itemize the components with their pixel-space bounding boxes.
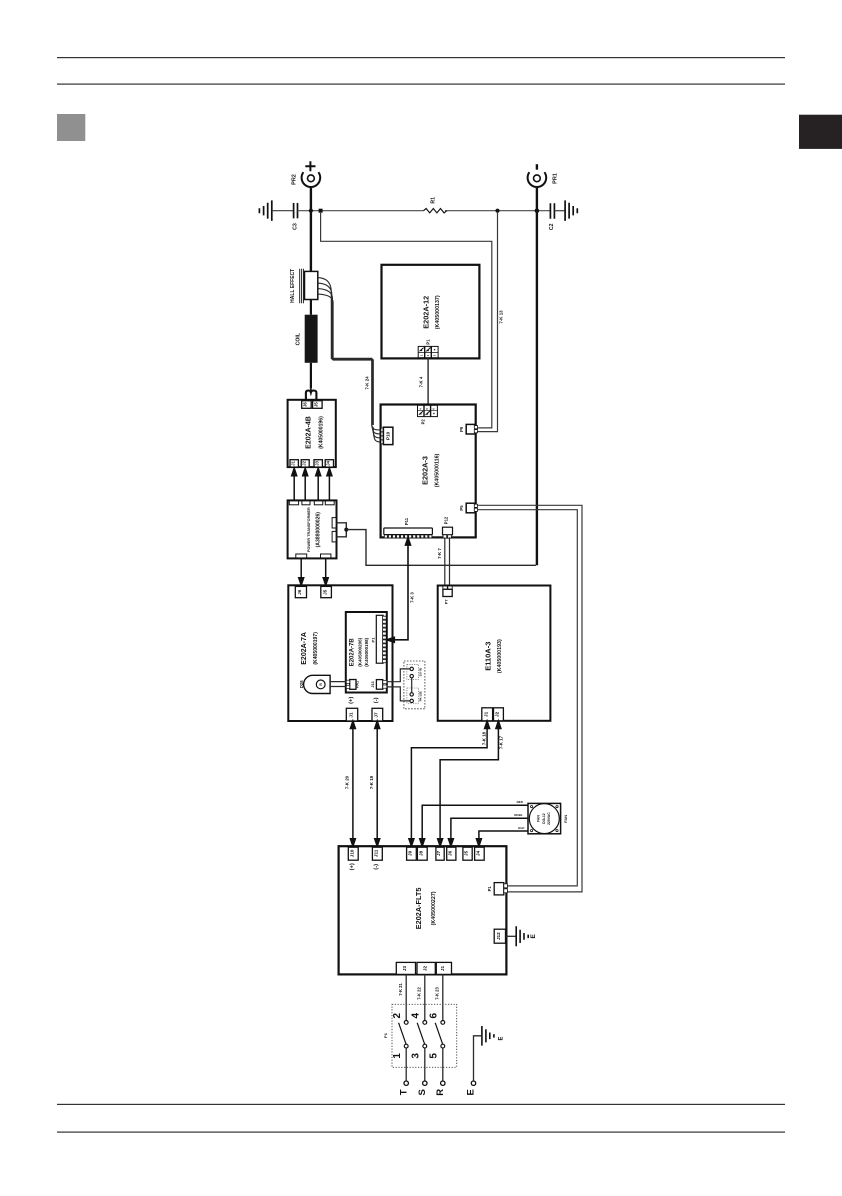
svg-text:P1: P1 [487, 886, 492, 892]
wire node to P9 upper [321, 213, 492, 428]
svg-text:(K405000196): (K405000196) [318, 416, 324, 449]
svg-text:7-K 17: 7-K 17 [498, 735, 503, 749]
svg-text:J1: J1 [440, 966, 445, 972]
junction coil split diamond [309, 388, 313, 394]
wire hall bundle (4 leads to P10) [318, 278, 374, 425]
wire J13 upper to switch [387, 669, 410, 682]
connector P5 pins [474, 504, 477, 511]
wire switch 1 to T [405, 1048, 407, 1081]
svg-text:7-K 19: 7-K 19 [369, 775, 374, 789]
connector P7 body [443, 589, 452, 596]
svg-text:J1: J1 [483, 711, 488, 717]
connector P5 body [466, 503, 475, 513]
svg-text:6: 6 [428, 1012, 439, 1018]
wire transformer to PR1 line [346, 530, 536, 566]
svg-text:7-K 3: 7-K 3 [409, 592, 414, 603]
svg-text:(-): (-) [374, 864, 380, 870]
svg-text:FAN: FAN [537, 815, 541, 822]
wire E terminal to earth [474, 1036, 482, 1081]
wire J13 lower to switch [387, 687, 410, 701]
connector J2 (E110A-3) [494, 708, 504, 721]
wire C2 to ground [554, 210, 565, 212]
connector P9 pins [474, 426, 477, 433]
connector J1 (E202A-4B) [290, 460, 298, 467]
transformer POWER TRANSFORMER body [288, 500, 337, 558]
svg-text:D28: D28 [299, 680, 304, 688]
svg-text:P1: P1 [426, 339, 431, 345]
connector J12 (FLT5) [494, 929, 505, 943]
wire switch 3 to S [424, 1048, 426, 1081]
connector J9 (FLT5) [407, 847, 417, 860]
arrow transformer to 7A J6 [299, 558, 329, 585]
svg-text:BLK: BLK [518, 826, 525, 830]
svg-text:DIA.12: DIA.12 [542, 813, 546, 824]
svg-text:J6: J6 [448, 850, 453, 856]
wire ground to C3 [272, 210, 293, 212]
svg-text:E: E [466, 1089, 477, 1095]
wire 7-K 19 (7A J7 to FLT5 J11) double arrow [375, 721, 380, 846]
transformer right pin notches [332, 518, 336, 542]
svg-text:P1: P1 [370, 637, 375, 643]
svg-text:J13: J13 [371, 681, 375, 687]
wire P5 to FLT5 P1 outer [478, 505, 583, 892]
svg-text:PR1: PR1 [552, 173, 558, 184]
junction mid bus [495, 209, 499, 213]
svg-text:PA1: PA1 [355, 681, 359, 688]
inner dashed box DS-7B [407, 664, 419, 679]
svg-text:(-): (-) [374, 697, 380, 703]
wire 7-K 4 (P1 to P2) [427, 358, 429, 406]
inner dashed box PK-12B [407, 688, 419, 703]
switch blade 1-2 [399, 1023, 407, 1045]
chassis ground left [259, 200, 271, 221]
connector J7 (-) of 7A [372, 708, 383, 721]
svg-text:C2: C2 [549, 223, 555, 230]
svg-text:RED: RED [517, 800, 524, 804]
minus sign above PR1 [536, 164, 538, 170]
connector J7 (FLT5) [436, 847, 444, 860]
svg-text:P1: P1 [383, 1032, 388, 1038]
wire fan BLK to FLT5 J4 [476, 831, 528, 846]
svg-text:J8: J8 [419, 850, 424, 856]
svg-text:7-K 20: 7-K 20 [345, 775, 350, 789]
wire 7-K 17 (FLT5 J7 to E110A-3 J2) [438, 721, 501, 846]
connector P9 body [466, 424, 475, 434]
plus sign above PR2 [305, 161, 315, 171]
connector J4 (E202A-4B) [325, 460, 333, 467]
terminal E [471, 1081, 475, 1085]
footer rule top [57, 1104, 785, 1105]
switch blade 5-6 [435, 1023, 443, 1045]
wire 7-K 3 from P11 to P1 with arrows [387, 538, 411, 643]
svg-text:PK-12B: PK-12B [418, 691, 422, 701]
svg-text:E110A-3: E110A-3 [483, 642, 492, 671]
svg-text:E202A-7A: E202A-7A [301, 632, 308, 665]
svg-text:J7: J7 [374, 712, 379, 718]
svg-text:E: E [499, 1036, 505, 1040]
board E202A-3 [381, 405, 476, 538]
connector P1 (FLT5) [494, 883, 504, 895]
resistor R1 [424, 209, 447, 213]
switch block P1 dashed box [392, 1004, 457, 1067]
connector HALL EFFECT body [305, 271, 318, 299]
connector P7 pin row [443, 586, 452, 589]
connector J6 (E202A-7A) [295, 586, 306, 597]
svg-text:COIL: COIL [296, 332, 302, 345]
svg-text:E202A-7B: E202A-7B [350, 638, 356, 667]
svg-text:7-K 24: 7-K 24 [364, 376, 369, 390]
svg-text:FAN: FAN [563, 815, 568, 823]
transformer bottom pin notches [296, 554, 331, 558]
svg-text:(K405000227): (K405000227) [431, 891, 437, 925]
wire 7-K 20 (7A J1 to FLT5 J10) double arrow [350, 721, 355, 846]
svg-text:(K405000137): (K405000137) [435, 295, 441, 329]
svg-text:J2: J2 [422, 966, 427, 972]
svg-text:S: S [417, 1089, 428, 1095]
svg-text:(K405000197): (K405000197) [313, 632, 319, 665]
svg-text:HALL EFFECT: HALL EFFECT [290, 269, 296, 303]
svg-text:7-K 23: 7-K 23 [435, 987, 440, 1000]
wire split wishbone into J6 J5 [306, 391, 317, 401]
svg-text:R1: R1 [431, 197, 437, 204]
wire between switch contacts [411, 678, 413, 693]
switch blade 3-4 [417, 1023, 425, 1045]
terminal S [423, 1081, 427, 1085]
junction at PR1 [535, 208, 540, 213]
connector J8 (FLT5) [417, 847, 427, 860]
connector P10 pins [381, 428, 384, 444]
svg-text:E202A-12: E202A-12 [421, 296, 430, 329]
svg-text:J5: J5 [322, 589, 327, 595]
svg-text:J6: J6 [303, 402, 308, 407]
wire switch 5 to R [442, 1048, 444, 1081]
switch contact 2 [404, 1021, 408, 1025]
svg-text:J2: J2 [495, 711, 500, 717]
wire fan RED to FLT5 J8 [420, 805, 528, 846]
svg-text:J3: J3 [314, 460, 319, 465]
svg-text:(K405000198): (K405000198) [364, 637, 369, 666]
svg-text:J3: J3 [402, 966, 407, 972]
junction transformer output [344, 528, 348, 532]
svg-text:J10: J10 [350, 849, 355, 857]
wire 7-K 23 (J1 to switch 6) [442, 974, 444, 1020]
board E110A-3 [438, 586, 551, 721]
connector P11 strip [384, 528, 433, 535]
transformer top pin notches [289, 501, 334, 505]
svg-text:5: 5 [428, 1053, 439, 1059]
svg-text:E202A-FLT5: E202A-FLT5 [414, 888, 423, 930]
terminal PR1 [528, 172, 547, 187]
svg-text:J11: J11 [374, 849, 379, 857]
svg-text:J6: J6 [297, 589, 302, 595]
wire 7-K 21 (J3 to switch 2) [405, 974, 407, 1020]
page tab black block [799, 115, 842, 149]
svg-text:J12: J12 [496, 932, 501, 940]
svg-text:7-K 13: 7-K 13 [499, 310, 504, 324]
svg-text:P10: P10 [385, 431, 390, 440]
svg-text:7-K 4: 7-K 4 [419, 376, 424, 387]
switch contact 1 [404, 1044, 408, 1048]
arrow transformer pin1 to J1 [292, 468, 332, 500]
connector P12 body [443, 527, 453, 535]
connector J3 (E202A-4B) [314, 460, 322, 467]
connector P1 (E202A-7B) pin column [383, 616, 387, 663]
wire PR1 down long left side [536, 188, 538, 565]
chassis ground right [565, 200, 577, 221]
board E202A-4B [288, 400, 336, 467]
connector J1 (E110A-3) [482, 708, 493, 721]
capacitor C3 [294, 203, 298, 218]
svg-text:J4: J4 [326, 460, 331, 465]
connector J5 (E202A-4B) [313, 401, 323, 409]
header rule bottom [57, 84, 785, 85]
section marker gray square [57, 114, 85, 141]
wire J12 to earth [506, 935, 516, 937]
connector J6 (FLT5) [447, 847, 456, 860]
svg-text:7-K 22: 7-K 22 [417, 987, 422, 1000]
svg-text:J5: J5 [314, 402, 319, 407]
wire hall to coil [310, 300, 312, 315]
svg-text:(K405000206): (K405000206) [357, 637, 362, 666]
diode D28 body [304, 675, 330, 693]
connector J1 (FLT5 bottom) [436, 962, 451, 974]
footer rule bottom [57, 1132, 785, 1133]
board E202A-7B [346, 612, 387, 693]
wire fan NOBL to FLT5 J6 [448, 818, 528, 846]
earth ground at E [482, 1026, 494, 1046]
connector J1 (+) of 7A [346, 708, 357, 721]
capacitor C2 [550, 203, 554, 218]
main bus wire [298, 210, 550, 212]
svg-text:T: T [398, 1089, 409, 1095]
svg-text:(K405000116): (K405000116) [434, 453, 440, 487]
wire coil to split junction [310, 363, 312, 389]
svg-text:(+): (+) [350, 863, 356, 870]
svg-text:P11: P11 [404, 517, 409, 525]
wire PR2 down to hall connector [310, 188, 312, 272]
connector PA1 [350, 680, 356, 690]
diode D28 inner circle [316, 680, 325, 689]
fan circle [529, 804, 559, 834]
svg-text:J1: J1 [290, 460, 295, 465]
connector P1 (E202A-12) grid [418, 346, 438, 357]
connector P12 pins [443, 535, 451, 538]
connector J2 (E202A-4B) [301, 460, 309, 467]
fan corner holes [531, 806, 559, 832]
svg-text:3: 3 [410, 1053, 421, 1059]
svg-text:7-K 7: 7-K 7 [437, 548, 442, 559]
connector J5 (FLT5) [463, 847, 472, 860]
svg-text:7-K 18: 7-K 18 [481, 731, 486, 745]
svg-text:J2: J2 [301, 460, 306, 465]
connector J13 [376, 680, 382, 690]
svg-text:J1: J1 [348, 712, 353, 718]
switch contacts [410, 667, 413, 702]
connector HALL EFFECT hatching [300, 269, 304, 304]
board E202A-12 [382, 265, 480, 359]
connector J3 (FLT5 bottom) [396, 962, 415, 974]
svg-text:POWER TRANSFORMER: POWER TRANSFORMER [307, 507, 311, 552]
svg-text:(A3880000026): (A3880000026) [316, 512, 322, 548]
connector J11 (FLT5) [372, 847, 382, 860]
svg-text:J7: J7 [436, 850, 441, 856]
svg-text:NOBL: NOBL [514, 813, 523, 817]
junction at PR2 [309, 209, 313, 213]
connector P10 body [383, 427, 393, 444]
terminal R [441, 1081, 445, 1085]
coil COIL body [305, 315, 318, 363]
svg-text:7-K 21: 7-K 21 [398, 983, 403, 996]
switch contact 5 [441, 1044, 445, 1048]
svg-text:(+): (+) [348, 697, 354, 704]
connector J6 (E202A-4B) [302, 401, 312, 409]
header rule top [57, 57, 785, 58]
svg-text:E202A-4B: E202A-4B [305, 416, 312, 449]
svg-text:4: 4 [410, 1012, 421, 1018]
svg-text:E: E [530, 933, 537, 938]
svg-text:DS-7B: DS-7B [418, 668, 422, 676]
svg-text:J5: J5 [464, 850, 469, 856]
svg-text:220VAC: 220VAC [547, 812, 551, 825]
terminal T [404, 1081, 408, 1085]
terminal PR2 [302, 172, 321, 187]
svg-text:PR2: PR2 [291, 174, 297, 185]
connector J4 (FLT5) [475, 847, 485, 860]
junction square node [319, 209, 323, 213]
wire 7-K 18 (FLT5 J9 to E110A-3 J1) [409, 721, 490, 846]
wire pair P12 to P7 [445, 537, 450, 585]
connector J10 (FLT5) [348, 847, 358, 860]
svg-text:P12: P12 [444, 516, 449, 524]
switch contact 4 [423, 1021, 427, 1025]
svg-text:J4: J4 [476, 850, 481, 856]
wire D28 to PA1 pair [330, 682, 346, 687]
fan FAN body [528, 803, 561, 833]
board E202A-FLT5 [339, 846, 507, 974]
svg-text:(K405000193): (K405000193) [497, 639, 503, 673]
svg-text:J9: J9 [408, 850, 413, 856]
svg-text:P9: P9 [459, 426, 464, 432]
svg-text:P7: P7 [443, 599, 448, 605]
svg-text:2: 2 [392, 1012, 403, 1018]
wire transformer secondary bracket [337, 523, 347, 537]
wire 7-K 22 (J2 to switch 4) [424, 974, 426, 1020]
connector J2 (FLT5 bottom) [417, 962, 435, 974]
svg-text:C3: C3 [292, 223, 298, 230]
switch contact 6 [441, 1021, 445, 1025]
hall leads hook arcs into P10 [372, 425, 381, 442]
switch contact 3 [423, 1044, 427, 1048]
svg-text:P5: P5 [459, 505, 464, 511]
board E202A-7A [288, 585, 392, 721]
wire junction to P9 lower [477, 213, 497, 432]
connector P1 (E202A-7B) strip [376, 615, 383, 663]
svg-text:E202A-3: E202A-3 [421, 456, 430, 485]
svg-text:R: R [435, 1089, 446, 1096]
earth ground at J12 [516, 926, 528, 946]
svg-text:P2: P2 [421, 419, 426, 425]
connector P2 grid [418, 405, 438, 416]
switch block dashed box (DS/PK) [404, 661, 425, 709]
svg-text:1: 1 [392, 1053, 403, 1059]
connector J5 (E202A-7A) [321, 586, 332, 597]
connector P11 pin row [384, 535, 432, 538]
